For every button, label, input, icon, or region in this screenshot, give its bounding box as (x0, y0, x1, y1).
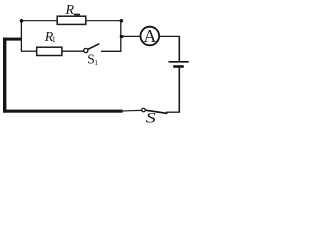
wire: R1 to S1 pivot (62, 50, 84, 52)
wire: left branch vertical (20, 21, 22, 52)
battery long plate (169, 61, 189, 63)
battery short plate (173, 65, 184, 68)
svg-text:A: A (143, 26, 156, 46)
wire: R1 branch left segment (21, 50, 37, 52)
svg-text:S: S (146, 109, 156, 126)
switch S pivot circle (142, 108, 146, 112)
wire: right merge vertical + S1 fixed contact (101, 21, 121, 52)
wire: bottom-right corner to switch contact (166, 111, 180, 113)
svg-text:1: 1 (52, 35, 56, 44)
resistor R2 body (57, 16, 86, 24)
wire: top branch left segment (22, 20, 58, 22)
ammeter U1 circle (141, 27, 160, 46)
switch S blade (145, 110, 167, 113)
node: top-left junction dot (20, 19, 24, 23)
node: ammeter tap square dot (120, 35, 124, 38)
wire: right vertical lower (178, 67, 180, 113)
wire: tap to ammeter (121, 35, 140, 37)
switch S1 blade (88, 44, 100, 50)
wire: top branch right segment (86, 20, 122, 22)
wire: top-left feed thick (3, 38, 22, 41)
switch S1 pivot circle (84, 48, 88, 52)
wire: thick wire to S pivot (121, 109, 142, 112)
node: top-right junction dot (120, 19, 124, 23)
wire: bottom horizontal thick (3, 110, 123, 113)
wire: right vertical upper (178, 36, 180, 61)
svg-text:1: 1 (94, 58, 98, 67)
svg-text:R: R (65, 3, 75, 18)
wire: ammeter to right corner (160, 35, 180, 37)
wire: left vertical thick (3, 38, 6, 113)
resistor R1 body (37, 47, 62, 55)
